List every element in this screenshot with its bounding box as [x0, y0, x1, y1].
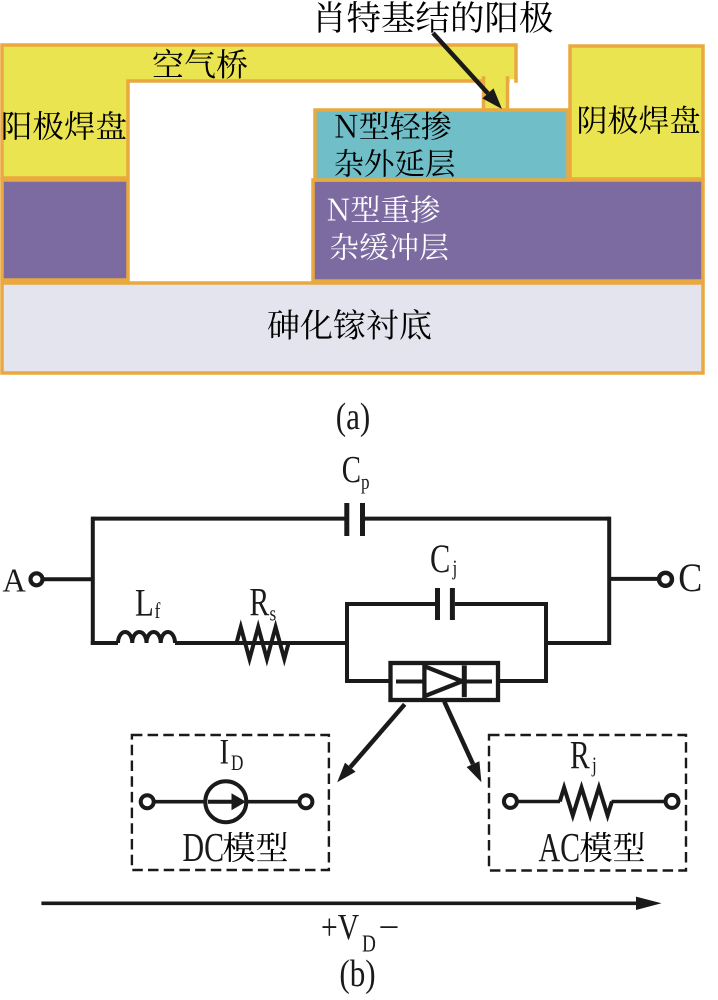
- svg-text:(b): (b): [339, 952, 375, 995]
- svg-text:C: C: [678, 556, 702, 600]
- svg-text:L: L: [135, 581, 154, 624]
- svg-text:j: j: [452, 556, 458, 581]
- svg-text:C: C: [430, 536, 450, 581]
- svg-text:R: R: [250, 580, 270, 624]
- svg-text:AC: AC: [539, 824, 581, 870]
- svg-text:p: p: [361, 470, 370, 495]
- svg-text:s: s: [270, 602, 277, 627]
- svg-text:C: C: [342, 449, 361, 491]
- svg-text:DC: DC: [183, 824, 225, 870]
- svg-text:A: A: [3, 562, 26, 600]
- svg-text:R: R: [570, 733, 590, 777]
- svg-text:f: f: [155, 599, 161, 623]
- svg-text:+V: +V: [321, 907, 359, 948]
- svg-text:j: j: [591, 753, 597, 778]
- svg-text:D: D: [231, 751, 243, 776]
- svg-text:(a): (a): [336, 395, 371, 438]
- svg-text:−: −: [379, 908, 400, 949]
- svg-text:I: I: [220, 732, 230, 772]
